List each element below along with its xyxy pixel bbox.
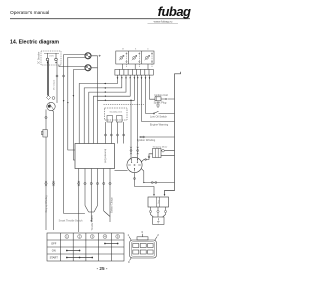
dc output block (153, 217, 164, 224)
fuse symbols (47, 75, 65, 100)
svg-text:4: 4 (104, 235, 106, 239)
svg-text:OFF: OFF (51, 242, 57, 246)
svg-text:Operator's manual: Operator's manual (10, 10, 49, 16)
main winding symbol (119, 53, 127, 68)
circuit breaker CB (47, 102, 55, 110)
svg-text:1: 1 (128, 233, 130, 237)
leads generator to terminal strip (123, 64, 149, 70)
node: bus tap to key switch (130, 100, 132, 102)
header rule (10, 18, 190, 20)
wire: terminal to ignition coil (150, 75, 156, 99)
key switch connector drawing (129, 234, 157, 261)
svg-text:Spark Plug: Spark Plug (154, 101, 167, 105)
svg-text:2: 2 (79, 235, 81, 239)
wire: bus 1 terminal to inverter (79, 75, 117, 144)
generator G windings box (116, 51, 154, 64)
wire: inverter out 6 (109, 169, 111, 223)
wire: oil warning line (142, 121, 175, 123)
wire: regulator lead 3 (163, 207, 167, 217)
table link ON 1-2 (66, 250, 80, 252)
svg-text:Low Oil Switch: Low Oil Switch (150, 115, 168, 119)
bus direction arrows (104, 83, 106, 101)
svg-text:Inverter Unit: Inverter Unit (104, 149, 108, 163)
wire: inverter to key switch (115, 170, 128, 172)
spark plug symbol (156, 101, 160, 108)
wire: ignition winding line (139, 136, 175, 138)
svg-text:- 25 -: - 25 - (97, 266, 108, 271)
wire: inverter out 1 (78, 169, 80, 233)
table link START 1-3 (66, 257, 93, 259)
svg-text:3: 3 (141, 230, 143, 234)
svg-text:5: 5 (117, 235, 119, 239)
ignition coil T1 (155, 97, 175, 101)
svg-text:Ignition Coil: Ignition Coil (154, 93, 168, 97)
svg-text:Stepping Motor: Stepping Motor (153, 146, 168, 149)
wire: inverter out 3 (90, 169, 92, 223)
wire: terminal to warning line (141, 75, 143, 122)
standby control unit dashed box (105, 108, 128, 122)
svg-text:14. Electric diagram: 14. Electric diagram (10, 40, 59, 46)
svg-text:D: D (147, 49, 149, 51)
svg-text:Battery Charge: Battery Charge (110, 197, 113, 213)
arrows on feed wires (63, 95, 74, 104)
svg-text:Step-up Winding: Step-up Winding (45, 195, 48, 213)
AC socket X1 (85, 53, 91, 59)
control panel dashed box (41, 51, 61, 65)
terminal strip TB (115, 69, 153, 75)
wire: control drop 4 (123, 122, 125, 144)
regulator rectifier box (148, 197, 169, 207)
wire: control drop 1 (105, 122, 107, 144)
wire: bus tap to key switch (130, 100, 132, 159)
wire: motor to frame (161, 149, 175, 155)
plug component P1 (41, 130, 47, 138)
svg-text:1: 1 (66, 235, 68, 239)
inverter unit U1 (75, 144, 115, 169)
switch position table (47, 233, 124, 261)
wire: socket X1 feed L (64, 55, 86, 214)
dc winding symbol (145, 53, 153, 68)
wire: bus 4 terminal to inverter (94, 75, 131, 144)
wire: socket X2 feed N (73, 70, 85, 160)
winding labels (122, 49, 149, 51)
svg-text:2: 2 (157, 233, 159, 237)
svg-text:Ignition Winding: Ignition Winding (137, 138, 156, 142)
table link OFF 4-5 (104, 243, 118, 245)
table row labels (50, 242, 59, 260)
wire: inverter out 5 (103, 169, 110, 217)
wire: bus 2 terminal to inverter (84, 75, 122, 144)
svg-text:Engine Warning: Engine Warning (150, 122, 169, 126)
connector pin labels (128, 230, 160, 264)
svg-text:www.fubag.ru: www.fubag.ru (154, 20, 173, 24)
wire: control drop 3 (117, 122, 119, 144)
svg-text:S: S (135, 49, 137, 51)
header: manual title (10, 10, 49, 16)
wire: throttle return (64, 213, 85, 215)
svg-text:DC Output: DC Output (52, 79, 55, 90)
table header circled numbers (65, 235, 120, 239)
wire: control drop 2 (110, 122, 112, 144)
svg-text:START: START (50, 256, 59, 260)
wire: socket X1 feed N (68, 57, 86, 150)
wire: terminal to oil switch (145, 75, 147, 114)
wire: key switch right lead to motor (141, 154, 152, 162)
terminal strip output arrows (117, 77, 151, 79)
wire: engine block line (141, 168, 175, 183)
svg-text:230V: 230V (49, 56, 54, 58)
wire: dashed control link (104, 104, 145, 106)
wire: sockets to inverter bus (91, 56, 98, 101)
svg-text:Smart Throttle Switch: Smart Throttle Switch (59, 219, 83, 222)
wire: inverter out 4 (89, 169, 99, 213)
wire: bus 3 terminal to inverter (89, 75, 126, 144)
svg-text:3: 3 (91, 235, 93, 239)
svg-text:fubag: fubag (158, 4, 191, 19)
wire: regulator lead 2 (157, 207, 159, 217)
low oil switch S2 (146, 111, 175, 114)
wire: bus 5 terminal to inverter (98, 75, 135, 144)
svg-text:Reg: Reg (157, 200, 159, 203)
svg-text:M: M (122, 49, 124, 51)
wire: breaker left lead down (45, 110, 47, 231)
wire: key switch ground lead (134, 173, 155, 197)
wire: breaker to table, connector at 186 (52, 110, 54, 230)
stepping motor M (153, 149, 162, 158)
engine frame right rail (165, 72, 181, 196)
wire: inverter out 2 (84, 169, 89, 213)
wire: panel drop 2 with connector (56, 61, 58, 103)
sub winding symbol (132, 53, 140, 68)
wire: regulator lead 1 (149, 207, 153, 217)
svg-text:Throttle Switch: Throttle Switch (91, 215, 94, 231)
node: socket stub tick (99, 55, 101, 57)
wire: socket X2 feed L (59, 65, 85, 67)
AC socket X2 (85, 65, 91, 71)
fubag logo (148, 4, 192, 23)
svg-text:Standby Unit: Standby Unit (110, 111, 123, 114)
wire: panel drop thick (47, 61, 49, 96)
svg-text:ON: ON (52, 249, 56, 253)
wire: terminal 6 to key switch (137, 75, 139, 160)
key switch S1 (127, 157, 142, 172)
svg-text:DC Breaker: DC Breaker (38, 52, 41, 65)
